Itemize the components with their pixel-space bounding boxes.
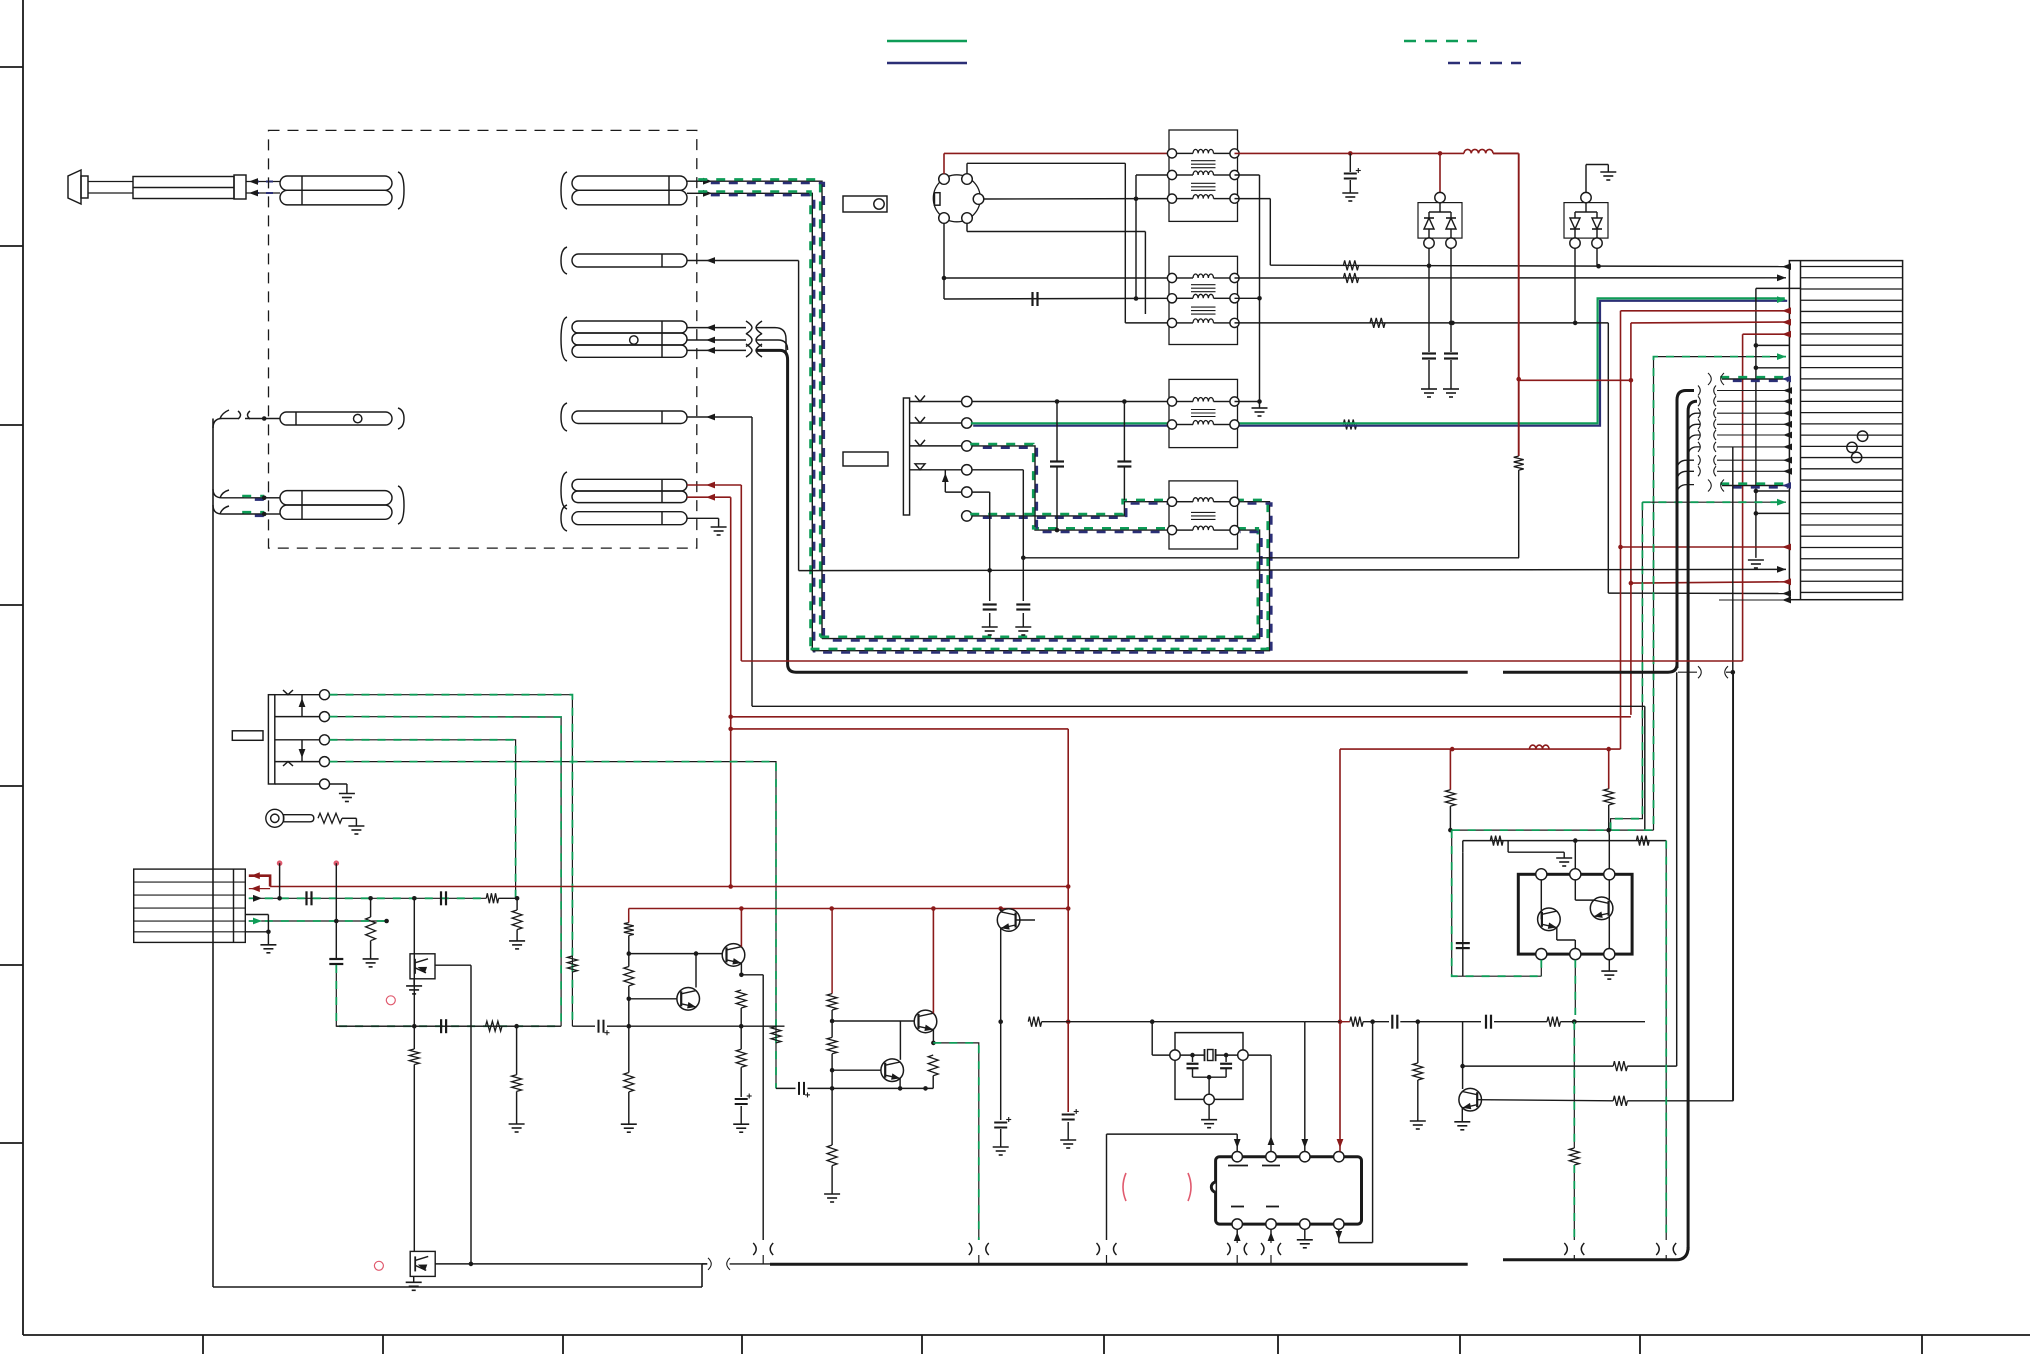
stage2 output dashed [933,1043,979,1240]
bottom pin3 ground [1608,960,1610,971]
cap+gnd under line5 [983,605,997,610]
diode module D1 [1418,203,1462,239]
coil L4 (top-right pair) [561,172,567,209]
Q6 emitter [899,1078,901,1088]
gang line5 wire [972,491,990,493]
dashed coil-unit box [269,130,697,548]
ecap into stage2 [799,1082,804,1095]
T2 right terminal3 wire [1235,322,1609,324]
resistor to ground x1417 [1417,1022,1419,1063]
T1 ground chain vertical [1235,174,1260,176]
osc outer rect [1175,1033,1243,1050]
crystal X1 [1180,1054,1204,1056]
drop wires to rail ends [762,1255,764,1264]
trunk B branch curves [1688,413,1700,423]
green dashed riser pin8 [1654,357,1787,830]
legend solid navy wire [887,62,967,64]
Q5 collector red [932,909,934,1014]
rotary band switch S1 [933,175,980,222]
dashed U bottom runs [822,530,1260,639]
red-to-resistor drop at 1519 [1514,456,1524,470]
bottom pin2 dashed drop [1574,960,1576,1015]
green dashed into pin22 [1642,501,1786,503]
inline resistor on tone wire x776 [771,1027,781,1043]
Q6 collector riser [899,1021,901,1060]
T2 right terminal1 wire to connector [1235,277,1787,279]
dual transistor package [1518,874,1632,954]
x336 drop with cap [335,921,337,958]
T1 right terminal3 wire [1235,198,1271,200]
small label rect near switch [843,196,887,212]
module black row y840 [1462,841,1464,853]
line y1021 right section [1305,1021,1340,1023]
resistor to ground x516 [516,898,518,910]
caps from line1 down [1056,402,1058,462]
red feed to diode module [1439,153,1441,193]
IC bottom pins wiring [1236,1229,1238,1240]
red pin7 riser [1743,333,1786,335]
red parens annotation [1123,1173,1126,1201]
rail break arcs for drop wires [753,1243,756,1255]
stage2 common rail y1088 [832,1087,933,1089]
transistor Q1 [629,998,677,1000]
wire y706 [752,705,1645,707]
antenna coil L1 (top-left pair) [280,176,392,190]
module bottom pin wiring [1540,960,1542,977]
IC polarity dashes [1228,1165,1248,1167]
earphone jack / key symbol [266,809,284,827]
trunk A branch curves [1677,460,1694,470]
transistor Q8 [1000,909,1002,912]
trunk B [1688,401,1697,1250]
trimmer arrow between line4 and line5 [944,470,946,492]
gang line6 ribbon to T4 [972,502,1169,516]
harness trunk A [1677,391,1694,669]
L7 output [687,416,752,418]
line y1026 extension [629,1025,785,1027]
coil L2 (left, with tap circle) [280,412,392,425]
ribbon into pin10 [1722,378,1786,380]
transistor Q7 [1462,1022,1464,1089]
red feed IC pin4 [1339,749,1341,1151]
gang section terminals [962,396,972,406]
gang line4 wire [972,469,1023,471]
ecap into stage1 [599,1020,604,1033]
harness break arcs and pin stubs [1698,386,1700,396]
red supply from T1 [1235,152,1465,154]
D1 legs [1428,248,1430,352]
thick chassis bus y672 [796,671,1468,674]
Q1 collector to Q2 base [695,954,697,988]
package transistors [1538,908,1561,931]
stage2 bias ladder x832 [831,909,833,994]
row5 dashed line [249,920,387,922]
long line y1021 [1028,1017,1041,1027]
ribbon into pin20 [1722,485,1786,487]
IF transformer T1 [1169,130,1238,221]
Q6 [832,1069,881,1071]
resistor on bus [1343,420,1356,430]
L6 outputs with breaks [687,327,746,329]
bottom common rail left [702,1263,707,1265]
connector row leads [249,876,270,887]
D2 legs [1574,248,1576,323]
IC top pins [1232,1152,1242,1162]
AF coupling line y1026 [441,1019,446,1033]
red circle annotation 1 [386,996,395,1005]
segment to crystal riser [1068,1021,1152,1023]
osc ground [1208,1105,1210,1120]
wire y570 to connector [799,569,1786,570]
antenna rod [68,170,81,204]
coil L5 (single) [561,247,567,274]
cap+gnd under line4 [1016,605,1030,610]
test point dots [277,860,283,866]
legend dashed green wire [1404,40,1477,42]
row3 signal line y898 [249,897,486,899]
border frame [22,0,24,1335]
L6 leads merging to trunk [756,328,786,339]
thick chassis bus right part [1503,664,1677,672]
volume/tone control assembly [268,695,274,784]
gang line3 ribbon to T4 [972,446,1169,530]
IF transformer T4 [1169,481,1238,549]
branch-446 drop wire [1732,447,1734,1101]
trimmer RT2 [410,1251,435,1276]
thick trunk from coil unit [756,350,796,672]
wire: bottom-left L to rail [213,1286,702,1288]
small label rect near gang [843,452,888,466]
Q2 emitter path [740,963,742,975]
pin stubs inside [1540,880,1542,919]
red riser pin5 [1621,310,1787,312]
osc caps [1192,1055,1194,1062]
antenna feed wires with arrows [246,181,280,183]
L5 output [687,260,799,262]
electrolytic to ground at 1350 [1349,153,1351,172]
stage1 bias ladder x628 [628,909,630,923]
Q2 collector red [740,909,742,947]
pin row 600 stub [1719,599,1786,601]
rows 4/6 ground [245,914,268,916]
module red drop right [1608,749,1610,789]
Q7 collector branch [1463,1065,1614,1067]
long red AF supply line y886 [270,886,1068,888]
second red rail y908 [629,908,1069,910]
y672 link with break [1678,671,1697,673]
IC U1 body [1216,1157,1362,1224]
ground bus vertical at connector [1755,288,1757,558]
module pin risers [1574,841,1576,869]
x414 resistor chain down [413,898,415,1049]
L9 lead to ground [687,517,719,519]
red y380 jumper [1519,379,1631,381]
IF transformer T2 [1169,256,1238,344]
legend dashed navy wire [1448,62,1521,64]
legend solid green wire [887,40,967,42]
IC bottom pin breaks [1227,1243,1230,1255]
L3 lead ribbons [244,497,266,499]
coil L8 (pair) [561,472,567,509]
wire y558 [1023,557,1519,559]
transistor Q2 [722,944,745,967]
Q5 emitter chain [932,1030,934,1043]
osc output to IC pin2 [1248,1054,1271,1056]
IF transformer T3 [1169,379,1238,447]
diode module D2 [1564,203,1608,239]
coil L7 (single) [561,403,567,431]
Q7 base line [1477,1100,1613,1101]
cap leg [1462,940,1464,976]
module red drop left [1449,749,1451,790]
D2 top ground [1585,165,1587,193]
trimmer RT1 [410,954,435,979]
Q5 base line [832,1020,914,1022]
red riser pin6 net [1631,321,1786,324]
switch wiring [943,153,945,174]
solid AM bus from gang line2 [971,422,1168,424]
pot pin5 ground [330,783,347,785]
AF input connector block [134,869,246,942]
emitter resistor chain x741 [736,990,746,1008]
main connector block [1789,261,1902,600]
dark red bus y661 [741,660,1742,662]
break marks [238,411,241,419]
red circle annotation 2 [374,1261,383,1270]
IC top pin3 riser [1304,1022,1306,1152]
bottom rail right [1503,1247,1688,1260]
variable capacitor gang frame [903,398,909,515]
IC pin1 feed [1107,1133,1238,1135]
module dashed feed row y830 [1452,829,1654,831]
L4 output ribbons (top twisted pair) [687,180,702,182]
coil L6 (triple with circle) [561,317,567,361]
L8 outputs (red) [687,484,741,486]
crystal osc loop [1151,1022,1153,1055]
module supply red y749 [1340,748,1621,750]
red y717 handled above; red y729 [731,728,1068,730]
coil L9 (single) [561,505,567,531]
x370 resistor to ground [370,898,372,917]
pot output ribbons [330,695,573,1026]
coil L3 (bottom-left pair) [280,491,392,505]
variable arrows (V marks) [915,396,925,402]
wire: left bus vertical [212,419,214,1288]
gang line1 wire [972,401,1172,403]
IC bottom pins [1232,1219,1242,1229]
connector guide circles [1857,431,1867,441]
module internal top link [1508,851,1564,853]
